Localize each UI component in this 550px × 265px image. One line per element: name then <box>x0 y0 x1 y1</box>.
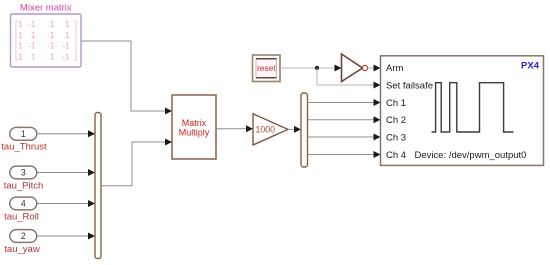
svg-text:1: 1 <box>65 19 70 29</box>
logic NOT gate U2 <box>342 54 368 82</box>
svg-text:Multiply: Multiply <box>179 128 210 138</box>
svg-text:Arm: Arm <box>386 63 404 74</box>
inport 4: tau_Roll <box>10 197 37 210</box>
svg-text:tau_yaw: tau_yaw <box>4 244 40 255</box>
svg-text:1: 1 <box>18 51 23 61</box>
svg-text:4: 4 <box>21 199 26 209</box>
svg-text:1000: 1000 <box>256 124 276 134</box>
svg-text:1: 1 <box>18 19 23 29</box>
wire: demux output 4 to Ch 4 <box>308 151 381 158</box>
PWM waveform icon <box>432 83 514 132</box>
svg-text:tau_Thrust: tau_Thrust <box>1 142 47 153</box>
wire: demux output 2 to Ch 2 <box>308 116 381 123</box>
svg-text:2: 2 <box>21 231 26 241</box>
wire: inport 4 to mux <box>37 200 95 207</box>
product block U1: Matrix Multiply <box>172 95 216 159</box>
wire: demux output 1 to Ch 1 <box>308 99 381 106</box>
svg-text:1: 1 <box>21 129 26 139</box>
svg-text:tau_Roll: tau_Roll <box>4 211 39 222</box>
svg-text:1: 1 <box>31 30 36 40</box>
svg-text:-1: -1 <box>28 19 36 29</box>
constant block K1: Mixer matrix <box>11 14 82 67</box>
svg-text:reset: reset <box>257 63 276 73</box>
svg-text:-1: -1 <box>47 30 55 40</box>
inport 3: tau_Pitch <box>10 166 37 179</box>
wire: mux output to Matrix Multiply bottom input <box>101 139 172 186</box>
wire: inport 3 to mux <box>37 169 95 176</box>
junction node on reset wire <box>315 66 319 70</box>
inport 1: tau_Thrust <box>10 127 37 140</box>
svg-text:Ch 1: Ch 1 <box>386 98 406 109</box>
wire: gain output to demux <box>288 126 301 133</box>
svg-text:Ch 3: Ch 3 <box>386 132 406 143</box>
wire: demux output 3 to Ch 3 <box>308 134 381 141</box>
wire: junction branch to Set failsafe <box>317 68 381 89</box>
svg-text:tau_Pitch: tau_Pitch <box>4 180 44 191</box>
svg-text:1: 1 <box>18 30 23 40</box>
wire: inport 1 to mux <box>37 130 95 137</box>
wire: NOT gate output to Arm <box>368 65 381 72</box>
mux block <box>95 113 101 259</box>
svg-text:1: 1 <box>65 30 70 40</box>
svg-text:1: 1 <box>18 41 23 51</box>
svg-text:Matrix: Matrix <box>182 118 207 128</box>
svg-text:Mixer matrix: Mixer matrix <box>20 3 72 14</box>
svg-text:PX4: PX4 <box>521 61 540 72</box>
wire: Mixer matrix output to Matrix Multiply top input <box>81 41 172 115</box>
svg-text:Device: /dev/pwm_output0: Device: /dev/pwm_output0 <box>415 150 527 161</box>
wire: inport 2 to mux <box>37 233 95 240</box>
svg-text:Set failsafe: Set failsafe <box>386 80 433 91</box>
svg-text:1: 1 <box>31 51 36 61</box>
svg-text:1: 1 <box>50 51 55 61</box>
svg-text:Ch 2: Ch 2 <box>386 115 406 126</box>
wire: reset output to NOT gate <box>280 65 342 72</box>
svg-text:Ch 4: Ch 4 <box>386 150 406 161</box>
wire: Matrix Multiply output to gain <box>216 125 253 132</box>
svg-text:1: 1 <box>50 19 55 29</box>
svg-text:-1: -1 <box>47 41 55 51</box>
svg-text:-1: -1 <box>28 41 36 51</box>
svg-text:-1: -1 <box>62 51 70 61</box>
inport 2: tau_yaw <box>10 230 37 243</box>
PX4 PWM output block U3 <box>381 56 544 166</box>
constant block K2: reset <box>253 55 281 82</box>
svg-text:-1: -1 <box>62 41 70 51</box>
svg-text:3: 3 <box>21 168 26 178</box>
demux block <box>301 93 308 167</box>
gain block G1: 1000 <box>253 114 288 145</box>
